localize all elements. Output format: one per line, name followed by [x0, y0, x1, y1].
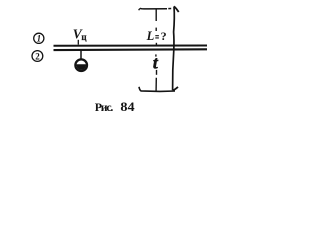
dashed boundary: top horizontal line: [140, 7, 167, 10]
tick from V label to wire 1: [77, 40, 79, 45]
svg-text:L: L: [146, 29, 155, 43]
detector stem (lead from wire 2): [80, 51, 82, 59]
dashed boundary: bottom horizontal line: [139, 87, 175, 92]
dimension arrow (vertical double-headed, right side): [173, 6, 179, 90]
node label 2 (circled digit for wire 2): [32, 51, 43, 62]
svg-text:1: 1: [37, 34, 42, 44]
wire 1 (upper conductor of two-wire line): [54, 45, 208, 47]
voltage pulse label V_ц: [73, 26, 88, 42]
caption: Рис. 84: [95, 100, 135, 114]
label l = ?: [146, 29, 167, 43]
svg-text:ц: ц: [81, 32, 87, 42]
arrowhead bottom: [173, 87, 178, 91]
node label 1 (circled digit for wire 1): [34, 33, 44, 43]
svg-text:2: 2: [35, 51, 40, 61]
svg-text:Рис.: Рис.: [95, 100, 114, 114]
dashed boundary: left vertical line (dashes): [155, 9, 157, 21]
wire 2 (lower conductor of two-wire line): [54, 48, 208, 51]
arrowhead top: [174, 6, 179, 12]
detector (receiver symbol, half-filled circle): [75, 59, 87, 71]
svg-text:84: 84: [120, 100, 135, 114]
svg-text:t: t: [153, 52, 159, 72]
svg-text:?: ?: [161, 29, 167, 43]
